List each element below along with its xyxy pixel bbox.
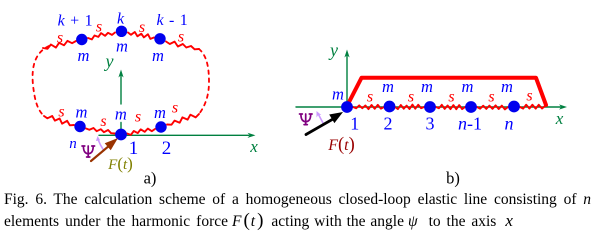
dashed arc right side of loop [199, 49, 209, 114]
svg-text:m: m [78, 46, 90, 65]
svg-text:s: s [178, 29, 184, 46]
svg-text:3: 3 [426, 114, 435, 134]
svg-text:2: 2 [384, 114, 393, 134]
mass 1 (origin) [115, 129, 127, 141]
spring s (mass 1 to mass 2) [127, 129, 155, 135]
spring s (mass k+1 to mass k) [88, 33, 115, 40]
mass n (b) [508, 101, 520, 113]
mass k [116, 26, 127, 37]
y-axis (a) [120, 75, 122, 130]
caption line 1 [4, 189, 591, 210]
x-axis (b) [296, 106, 561, 108]
svg-text:s: s [367, 89, 373, 106]
svg-text:n: n [505, 114, 514, 134]
spring s (mass 2 to right arc) [167, 114, 199, 125]
spring s (2-3) [395, 105, 424, 110]
spring s (3 - n-1) [436, 105, 465, 109]
svg-text:s: s [172, 100, 178, 117]
svg-text:y: y [104, 51, 114, 71]
svg-text:m: m [152, 46, 164, 65]
svg-text:s: s [488, 89, 494, 106]
angle label psi (b) [300, 114, 313, 125]
caption line 2 [4, 210, 513, 232]
spring s (1-2) [353, 105, 384, 109]
svg-text:m: m [332, 85, 344, 104]
mass 2 [155, 121, 166, 132]
svg-text:k + 1: k + 1 [58, 13, 94, 30]
spring s (left end to mass k+1) [43, 41, 76, 49]
svg-text:m: m [116, 37, 128, 56]
mass n [74, 121, 85, 132]
svg-text:s: s [135, 109, 141, 126]
mass n-1 (b) [465, 101, 477, 113]
svg-text:n-1: n-1 [458, 114, 482, 134]
small violet angle arrow (a) [99, 141, 104, 150]
svg-text:m: m [421, 77, 433, 96]
svg-text:k: k [117, 11, 125, 28]
force arrow F(t) (a, brown) [91, 146, 109, 161]
svg-text:s: s [448, 89, 454, 106]
svg-text:m: m [462, 77, 474, 96]
svg-text:m: m [115, 104, 127, 123]
svg-text:2: 2 [162, 138, 172, 159]
svg-text:k - 1: k - 1 [157, 12, 189, 29]
svg-text:s: s [408, 89, 414, 106]
mass 3 (b) [424, 101, 436, 113]
svg-text:1: 1 [350, 114, 359, 134]
svg-text:x: x [555, 109, 564, 128]
svg-text:a): a) [144, 169, 157, 188]
spring s (mass k to mass k-1) [128, 32, 154, 39]
svg-text:s: s [139, 19, 145, 36]
svg-text:s: s [96, 19, 102, 36]
svg-text:m: m [382, 77, 394, 96]
svg-text:m: m [154, 103, 166, 122]
svg-text:s: s [526, 88, 532, 105]
mass 2 (b) [384, 101, 396, 113]
y-axis arrowhead (a) [118, 70, 123, 78]
svg-text:y: y [328, 40, 338, 60]
svg-text:s: s [57, 30, 63, 47]
x-axis (a) [99, 134, 249, 136]
spring s (left arc to mass n) [44, 116, 74, 125]
svg-text:b): b) [446, 169, 460, 188]
thick red boundary line (trapezoid) [347, 78, 546, 106]
y-axis (b) [346, 55, 348, 106]
svg-text:m: m [76, 103, 88, 122]
svg-text:s: s [100, 113, 106, 130]
spring s (n - right wall) [520, 105, 545, 109]
angle label psi (a) [82, 146, 95, 157]
spring s (mass n to mass 1) [86, 128, 115, 134]
spring s (mass k-1 to right arc) [166, 42, 199, 50]
x-axis arrowhead (b) [559, 104, 567, 109]
svg-text:F(t): F(t) [107, 154, 133, 173]
svg-text:F(t): F(t) [327, 135, 355, 155]
mass 1 (b) [341, 101, 353, 113]
mass k-1 [154, 33, 165, 44]
mass k+1 [76, 34, 87, 45]
svg-text:n: n [69, 136, 77, 152]
svg-text:m: m [501, 77, 513, 96]
svg-text:s: s [58, 104, 64, 121]
dashed arc left side of loop [33, 46, 49, 116]
svg-text:x: x [249, 137, 258, 156]
force arrow F(t) (b, black) [306, 119, 333, 135]
small violet angle arrow (b) [319, 115, 324, 124]
x-axis arrowhead (a) [248, 133, 256, 138]
spring s (n-1 - n) [477, 105, 508, 109]
y-axis arrowhead (b) [344, 50, 349, 58]
